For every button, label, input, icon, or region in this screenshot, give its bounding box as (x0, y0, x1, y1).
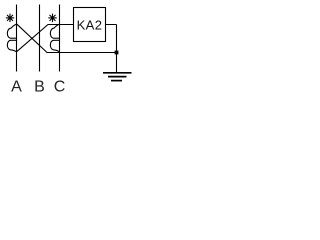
ground symbol (103, 73, 132, 81)
winding top lead (11, 24, 17, 28)
wire CT1 finish lead diagonal up to relay wire (17, 25, 117, 52)
wire phase line B (39, 5, 41, 72)
svg-text:KA2: KA2 (77, 18, 103, 33)
winding bottom lead (11, 50, 17, 52)
wire phase line A (16, 5, 18, 72)
winding bump 2 (7, 40, 11, 50)
wire phase line C (59, 5, 61, 72)
winding bottom lead (54, 50, 60, 52)
winding bump 2 (50, 40, 54, 50)
winding bump 1 (7, 28, 11, 38)
polarity mark asterisk CT1 (6, 14, 14, 23)
winding top lead (54, 24, 60, 28)
winding tick lower-middle (10, 39, 16, 41)
wire CT1 start lead diagonal to common point, then horizontal to junction (17, 24, 117, 53)
CT2 secondary winding (phase C) (50, 24, 59, 52)
svg-text:C: C (54, 79, 66, 95)
svg-text:A: A (11, 79, 22, 95)
winding tick upper-middle (53, 37, 59, 39)
relay box KA2 (74, 8, 106, 42)
junction dot (115, 51, 119, 55)
winding bump 1 (50, 28, 54, 38)
CT1 secondary winding (phase A) (7, 24, 16, 52)
winding tick upper-middle (10, 37, 16, 39)
wire relay drop from stub down to ground junction (116, 25, 118, 73)
svg-text:B: B (34, 79, 45, 95)
winding tick lower-middle (53, 39, 59, 41)
polarity mark asterisk CT2 (48, 14, 56, 23)
